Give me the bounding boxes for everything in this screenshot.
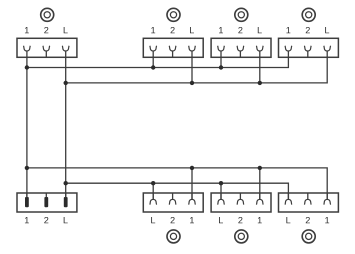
wire: bottom net-1 bus drop to X7 terminal 1 [259,168,261,199]
pin label 1 of X2 [151,27,155,33]
mounting hole above X1 [41,8,54,21]
X5 terminal 2 (male pin contact) [44,193,48,207]
junction: X5-L riser / bottom net-L bus [63,181,67,185]
X1 terminal L (socket contact) [62,46,69,58]
mounting hole above X2 [167,8,180,21]
X5 terminal 1 (male pin contact) [25,193,29,207]
junction: X7-L / bottom net-L bus [219,181,223,185]
pin label 2 of X6 [171,217,175,223]
X5 terminal L (male pin contact) [64,193,68,207]
junction: X2-L / top net-L bus [190,81,194,85]
junction: X5-1 riser / bottom net-1 bus [25,166,29,170]
wire: bottom net-L bus drop to X6 terminal L [152,183,154,199]
wire: bottom net-1 bus drop to X6 terminal 1 [191,168,193,199]
pin label L of X6 [151,217,155,223]
junction: X2-1 / top net-1 bus [151,65,155,69]
X3 terminal 1 (socket contact) [218,46,225,58]
X4 terminal L (socket contact) [324,46,331,58]
pin label 1 of X4 [286,27,290,33]
pin label L of X3 [258,27,262,33]
wire: bus net L (top), connects terminal L of X1..X4 [66,57,328,83]
terminal block X4 (top row, block 4) [279,38,339,57]
wire: bus net 1 (top), connects terminal 1 of X1..X4 [27,57,289,67]
pin label 2 of X8 [306,217,310,223]
wire: bus net 1 (bottom), connects terminal 1 of X5..X8 [27,168,327,199]
wire: X3 terminal L drop to top net-L bus [259,57,261,83]
X6 terminal 1 (socket contact) [189,193,196,205]
pin label L of X8 [286,217,290,223]
X7 terminal 1 (socket contact) [256,193,263,205]
pin label L of X2 [190,27,194,33]
pin label 1 of X1 [25,27,29,33]
terminal block X7 (bottom row, block 3) [211,193,271,212]
X1 terminal 1 (socket contact) [24,46,31,58]
pin label 2 of X2 [171,27,175,33]
pin label 1 of X3 [219,27,223,33]
mounting hole below X6 [167,230,180,243]
wire: X1 terminal L down through net-L buses to X5 terminal L [65,57,67,197]
junction: X3-L / top net-L bus [258,81,262,85]
X6 terminal L (socket contact) [150,193,157,205]
terminal block X6 (bottom row, block 2) [143,193,203,212]
pin label L of X4 [325,27,329,33]
pin label 2 of X4 [306,27,310,33]
wire: X3 terminal 1 drop to top net-1 bus [220,57,222,67]
junction: X6-1 / bottom net-1 bus [190,166,194,170]
X8 terminal 1 (socket contact) [324,193,331,205]
wire: X2 terminal 1 drop to top net-1 bus [152,57,154,67]
X4 terminal 2 (socket contact) [304,46,311,58]
X1 terminal 2 (socket contact) [43,46,50,58]
pin label 2 of X1 [44,27,48,33]
terminal block X2 (top row, block 2) [143,38,203,57]
wire: bus net L (bottom), connects terminal L of X5..X8 [66,183,289,199]
terminal block X5 (bottom row, block 1) [17,193,77,212]
X7 terminal L (socket contact) [218,193,225,205]
junction: X1-1 / top net-1 bus [25,65,29,69]
pin label 1 of X8 [325,217,329,223]
pin label 2 of X5 [44,217,48,223]
X7 terminal 2 (socket contact) [237,193,244,205]
X3 terminal L (socket contact) [256,46,263,58]
wire: X1 terminal 1 down through net-1 buses to X5 terminal 1 [26,57,28,197]
pin label 1 of X5 [25,217,29,223]
X2 terminal 2 (socket contact) [169,46,176,58]
terminal block X3 (top row, block 3) [211,38,271,57]
junction: X3-1 / top net-1 bus [219,65,223,69]
X8 terminal L (socket contact) [285,193,292,205]
pin label L of X5 [64,217,68,223]
X4 terminal 1 (socket contact) [285,46,292,58]
X8 terminal 2 (socket contact) [304,193,311,205]
pin label 1 of X6 [190,217,194,223]
pin label L of X1 [64,27,68,33]
pin label L of X7 [219,217,223,223]
mounting hole above X4 [302,8,315,21]
mounting hole below X7 [235,230,248,243]
terminal block X8 (bottom row, block 4) [279,193,339,212]
junction: X6-L / bottom net-L bus [151,181,155,185]
X3 terminal 2 (socket contact) [237,46,244,58]
wire: bottom net-L bus drop to X7 terminal L [220,183,222,199]
pin label 2 of X3 [238,27,242,33]
X2 terminal L (socket contact) [189,46,196,58]
mounting hole below X8 [302,230,315,243]
junction: X7-1 / bottom net-1 bus [258,166,262,170]
X6 terminal 2 (socket contact) [169,193,176,205]
pin label 2 of X7 [238,217,242,223]
terminal block X1 (top row, block 1) [17,38,77,57]
wire: X2 terminal L drop to top net-L bus [191,57,193,83]
X2 terminal 1 (socket contact) [150,46,157,58]
pin label 1 of X7 [258,217,262,223]
junction: X1-L / top net-L bus [63,81,67,85]
mounting hole above X3 [235,8,248,21]
